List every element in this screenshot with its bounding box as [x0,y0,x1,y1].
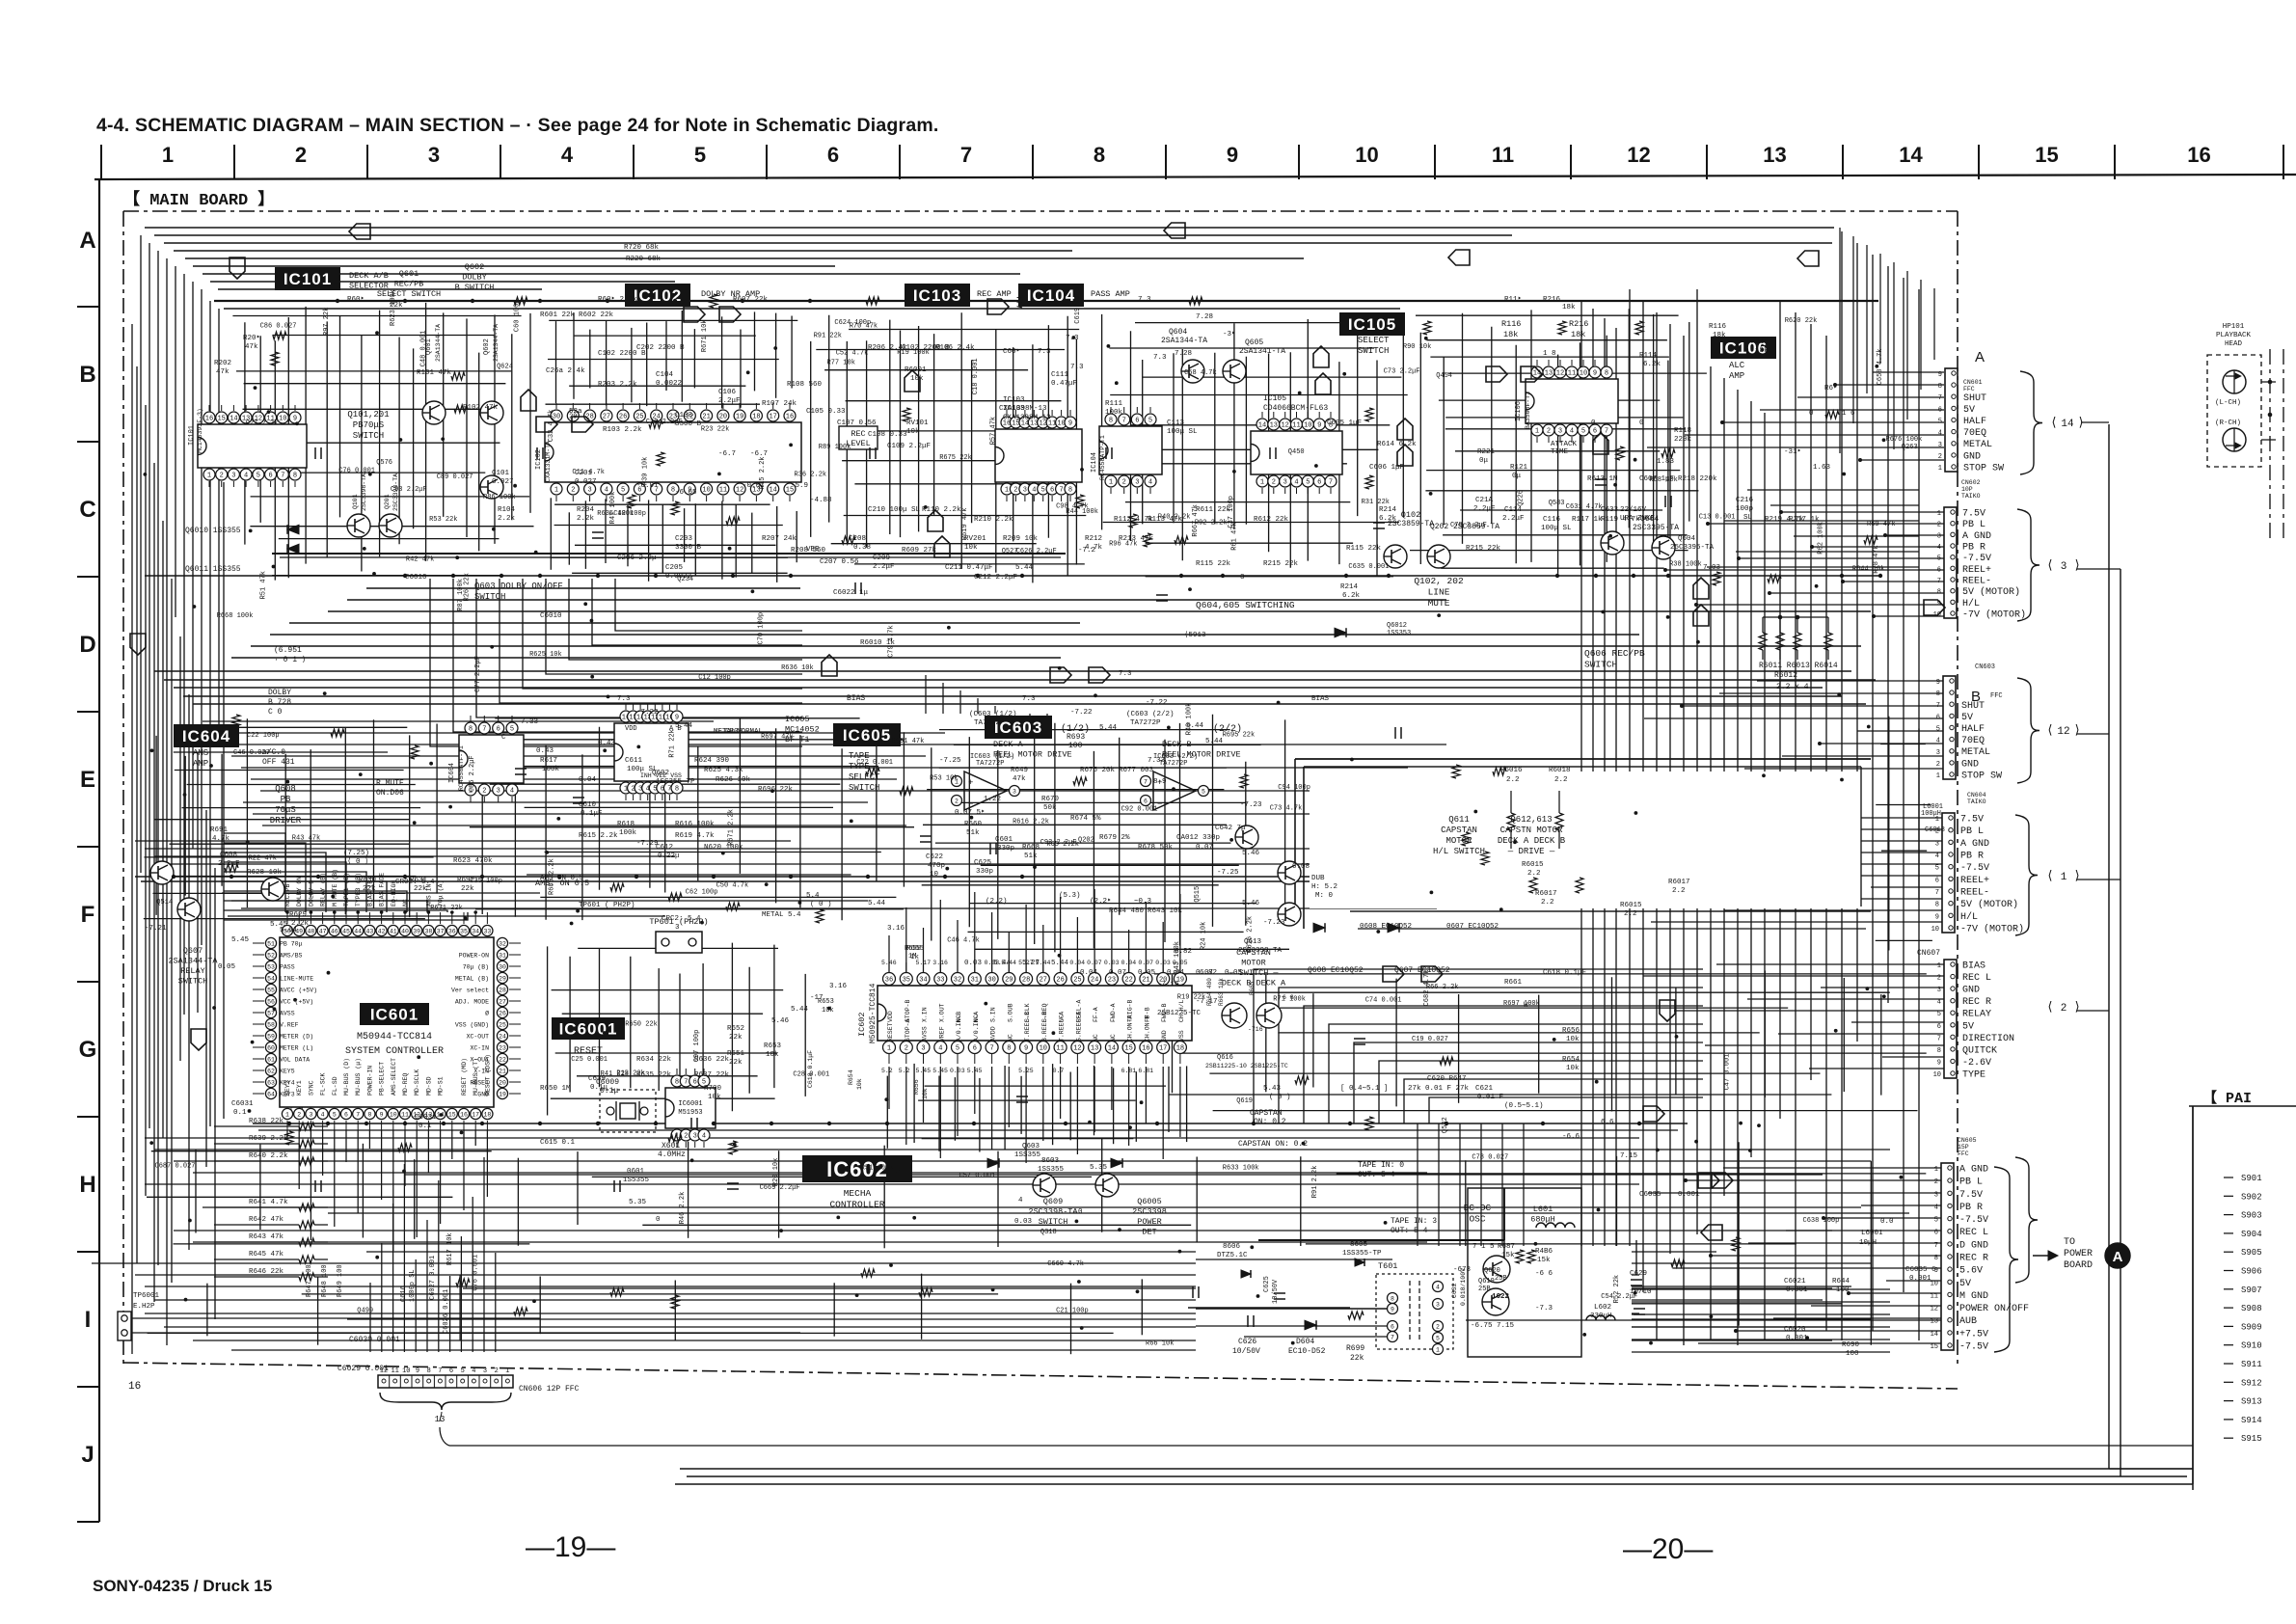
svg-text:7: 7 [438,1367,442,1375]
svg-text:6: 6 [1317,479,1321,487]
svg-text:15: 15 [217,416,225,423]
svg-text:43: 43 [365,928,373,934]
svg-text:26: 26 [619,414,627,421]
svg-text:32: 32 [954,977,961,985]
svg-text:R601 22k: R601 22k [540,311,576,319]
svg-text:6.2k: 6.2k [1342,592,1361,600]
svg-text:C612: C612 [656,844,673,852]
IC104 label [1018,284,1084,307]
svg-text:C78 0.027: C78 0.027 [1472,1153,1508,1161]
svg-text:47k: 47k [216,368,230,376]
svg-text:R617 10k: R617 10k [446,1232,454,1265]
svg-text:R203 2.2k: R203 2.2k [598,381,637,389]
svg-text:2: 2 [1937,522,1941,529]
svg-text:Q612,613: Q612,613 [1510,815,1552,825]
svg-text:R71 100k: R71 100k [1273,996,1306,1004]
svg-text:METAL 5.4: METAL 5.4 [762,911,801,919]
svg-text:-7.5V: -7.5V [1959,1215,1988,1226]
svg-text:C21A: C21A [1475,497,1494,504]
svg-text:C60‣: C60‣ [1003,348,1020,356]
connector CN601 [1945,368,1958,472]
svg-text:Q624: Q624 [497,363,513,370]
svg-text:2.2μF: 2.2μF [1502,515,1525,523]
page arrow [1486,366,1507,382]
svg-text:C77 2.2μF: C77 2.2μF [474,656,482,692]
left vertical bus wires [131,324,133,1354]
junction dots [976,574,980,578]
svg-text:Q619: Q619 [1236,1097,1253,1105]
svg-text:REEL-: REEL- [1962,577,1991,587]
svg-text:SONY-04235 / Druck 15: SONY-04235 / Druck 15 [93,1577,272,1595]
white space capstan block [1310,771,1861,908]
svg-text:A GND: A GND [1960,839,1989,850]
svg-text:C13 0.001: C13 0.001 [1699,513,1736,521]
svg-text:CXA1331M-TA: CXA1331M-TA [545,441,552,482]
svg-text:R637 22k: R637 22k [694,1071,730,1079]
svg-text:59: 59 [267,1033,275,1040]
wire mesh IC603 area [939,729,1230,731]
svg-text:4: 4 [1436,1284,1440,1290]
svg-text:(C603 (1/2): (C603 (1/2) [969,711,1017,718]
svg-text:BIAS: BIAS [1311,695,1330,703]
svg-text:R676 100k: R676 100k [1886,436,1923,444]
svg-text:Q6010 1SS355: Q6010 1SS355 [185,527,241,535]
svg-text:R616 2.2k: R616 2.2k [1247,916,1255,953]
svg-text:14: 14 [230,416,237,423]
svg-text:IC602: IC602 [857,1012,867,1037]
svg-text:57: 57 [267,1010,275,1016]
svg-text:C618 0.1μF: C618 0.1μF [807,1050,814,1088]
svg-text:R11‣: R11‣ [1504,296,1522,304]
page arrow [521,390,536,411]
svg-text:R62 100k: R62 100k [1818,522,1825,555]
svg-text:R691: R691 [210,826,229,834]
svg-text:RC4558ATF-T1: RC4558ATF-T1 [458,745,465,791]
svg-text:A GND: A GND [1959,1165,1988,1176]
svg-text:Q101,201: Q101,201 [347,410,389,420]
svg-text:8: 8 [427,1367,431,1375]
svg-text:7: 7 [1605,428,1608,436]
svg-text:Q604: Q604 [1169,328,1187,337]
svg-text:7: 7 [1937,1035,1941,1042]
svg-text:C105 0.33: C105 0.33 [806,408,846,416]
svg-text:1: 1 [887,1045,891,1053]
svg-text:R611 22k: R611 22k [1196,506,1231,514]
svg-text:5V: 5V [1959,1279,1971,1289]
svg-text:C 0: C 0 [268,708,283,717]
svg-text:DECK B: DECK B [1162,740,1192,749]
svg-text:0.03: 0.03 [1014,1218,1033,1226]
svg-text:R656: R656 [913,1079,920,1095]
svg-text:S901: S901 [2241,1174,2262,1183]
svg-text:HALF: HALF [1963,417,1986,427]
svg-text:3: 3 [1938,442,1942,449]
svg-text:KEY1: KEY1 [296,1080,303,1096]
op-amp IC603 1/2 [964,771,1007,810]
svg-text:7.3: 7.3 [1070,364,1084,371]
panel board border [2189,1105,2296,1107]
svg-text:1.83: 1.83 [1657,458,1675,466]
svg-text:100μ SL: 100μ SL [1167,428,1198,436]
svg-text:0.07: 0.07 [1087,960,1102,966]
svg-text:-7V (MOTOR): -7V (MOTOR) [1962,609,2026,621]
wire mesh right mid [1880,744,1926,745]
svg-text:CONTROLLER: CONTROLLER [829,1200,884,1210]
svg-text:10: 10 [702,487,710,495]
connector CN603 [1943,676,1956,779]
svg-text:C18 0.001: C18 0.001 [972,358,980,394]
svg-text:HEAD: HEAD [2225,340,2243,348]
svg-text:M: 0: M: 0 [1315,892,1334,900]
svg-text:MD-SD: MD-SD [425,1076,432,1096]
svg-text:I: I [85,1307,92,1333]
svg-text:5: 5 [461,1367,465,1375]
REC LEVEL box [839,426,878,449]
IC104 chip [1099,426,1162,474]
svg-text:1000p SL: 1000p SL [409,1269,417,1302]
svg-text:SL: SL [1743,514,1753,522]
svg-text:A: A [1975,349,1985,365]
svg-text:7: 7 [684,1079,688,1087]
svg-text:REC/PB: REC/PB [284,883,291,907]
svg-text:R607 22k: R607 22k [733,296,769,304]
svg-text:-5.9: -5.9 [791,482,808,490]
svg-text:-17: -17 [810,994,824,1002]
svg-text:C6010: C6010 [540,612,562,620]
IC106 chip [1526,379,1618,423]
svg-text:NORMAL: NORMAL [737,728,764,736]
svg-text:5.6V: 5.6V [1959,1266,1983,1277]
row F wires [135,840,791,842]
svg-text:R107 24k: R107 24k [762,400,797,408]
svg-text:10: 10 [1304,422,1311,430]
svg-text:GND: GND [1962,986,1980,996]
svg-text:R651: R651 [727,1050,745,1058]
svg-text:R670: R670 [1041,796,1060,803]
svg-text:X-IN: X-IN [473,1069,489,1075]
transistor Q608 [261,878,284,901]
svg-text:2SC3395-TA: 2SC3395-TA [1633,524,1679,532]
svg-text:C46 4.7k: C46 4.7k [947,937,980,945]
svg-text:-6.7: -6.7 [718,450,736,458]
svg-text:KEY3: KEY3 [280,1092,295,1098]
svg-text:4: 4 [1937,544,1941,552]
svg-text:6.2k: 6.2k [1643,361,1661,368]
svg-text:7: 7 [1122,418,1126,425]
svg-text:CN602: CN602 [1961,479,1981,486]
svg-text:STOP-A: STOP-A [905,1018,911,1042]
svg-text:R MUTE: R MUTE [376,779,404,788]
page arrow [1315,373,1331,394]
svg-text:R115 22k: R115 22k [1196,560,1231,568]
svg-text:H/L: H/L [1962,598,1980,609]
svg-text:SWITCH: SWITCH [1039,1217,1068,1227]
svg-text:CA012 330p: CA012 330p [1176,834,1220,842]
svg-text:C26a 2.4k: C26a 2.4k [546,367,585,375]
svg-text:LINE-MUTE: LINE-MUTE [280,976,313,983]
svg-text:0.1μ: 0.1μ [590,1084,608,1092]
svg-text:DUB: DUB [1311,875,1325,882]
svg-text:31: 31 [499,952,506,959]
page arrow [191,1029,206,1050]
svg-text:-7.5V: -7.5V [1962,554,1991,564]
svg-text:27: 27 [603,414,610,421]
svg-text:6: 6 [1593,428,1597,436]
svg-text:2SC3398-TA: 2SC3398-TA [1028,1207,1078,1217]
svg-text:14: 14 [1258,422,1266,430]
svg-text:2.2: 2.2 [1554,776,1568,784]
svg-text:C54 2.2μF: C54 2.2μF [1601,1293,1637,1301]
mid horizontal bus wires [145,575,1878,577]
svg-text:R220 68k: R220 68k [626,256,662,263]
svg-text:R214: R214 [1379,506,1397,514]
svg-text:4: 4 [1032,487,1036,495]
svg-text:(2.2): (2.2) [986,898,1008,906]
svg-text:C: C [79,497,95,523]
svg-text:31: 31 [971,977,979,985]
svg-text:R51 100k: R51 100k [861,1165,894,1173]
svg-text:2.2k: 2.2k [291,920,310,928]
svg-text:C211 0.47μF: C211 0.47μF [945,564,993,572]
svg-text:R697 47k: R697 47k [761,734,794,742]
svg-text:3: 3 [1935,840,1939,848]
svg-text:16: 16 [128,1381,141,1393]
svg-text:15: 15 [2035,143,2058,167]
svg-text:R699: R699 [1346,1344,1364,1353]
svg-text:2: 2 [1013,487,1017,495]
svg-text:28: 28 [1022,977,1030,985]
svg-text:FFC: FFC [1963,386,1975,392]
svg-text:Q602: Q602 [483,338,491,355]
svg-text:0.7: 0.7 [1053,1068,1065,1074]
svg-text:SHUT: SHUT [1963,393,1986,404]
column ticks [100,145,102,179]
svg-text:IC604: IC604 [182,727,230,745]
svg-text:CAPSTN MOTOR: CAPSTN MOTOR [1500,826,1563,835]
svg-text:10/50V: 10/50V [1272,1279,1280,1304]
scattered diodes [1335,628,1346,637]
svg-text:17: 17 [1159,1045,1167,1053]
svg-text:0.07: 0.07 [1109,969,1126,977]
svg-text:6.81: 6.81 [1121,1068,1137,1074]
svg-text:1: 1 [1109,479,1113,487]
svg-text:11: 11 [1568,370,1576,378]
svg-text:50k: 50k [1043,804,1057,812]
svg-text:39: 39 [413,928,420,934]
svg-text:16: 16 [786,414,794,421]
svg-text:12: 12 [1556,370,1564,378]
svg-text:FL-SD: FL-SD [332,1076,338,1096]
svg-text:M.MUTE (B): M.MUTE (B) [332,869,338,907]
svg-text:TA7272P: TA7272P [1130,719,1161,727]
svg-text:Q609: Q609 [1043,1197,1063,1206]
svg-text:0.08: 0.08 [1292,863,1310,871]
svg-text:4: 4 [510,788,514,796]
svg-text:R202: R202 [214,360,231,367]
svg-text:22/16V: 22/16V [1620,506,1647,514]
svg-text:29: 29 [1005,977,1013,985]
svg-text:42: 42 [378,928,386,934]
svg-text:C620 R647: C620 R647 [1427,1075,1467,1083]
svg-text:R624 390: R624 390 [694,757,730,765]
svg-text:E.H2P: E.H2P [133,1303,155,1311]
svg-text:1SS355: 1SS355 [1038,1166,1065,1174]
svg-text:13: 13 [1931,1318,1938,1326]
svg-text:7: 7 [1144,778,1148,785]
svg-text:15P: 15P [1958,1144,1969,1150]
svg-text:4: 4 [1937,999,1941,1007]
svg-text:C62 100p: C62 100p [686,889,718,897]
svg-text:CN604: CN604 [1967,792,1986,798]
svg-text:(5.3): (5.3) [1059,892,1081,900]
svg-text:CRC2: 5.4: CRC2: 5.4 [662,915,701,923]
svg-text:POWER-ON: POWER-ON [459,953,489,960]
svg-text:R678 50k: R678 50k [1138,844,1174,852]
svg-text:VDD: VDD [625,725,637,733]
brace 3 [2017,509,2039,621]
svg-text:R40 2.2k: R40 2.2k [1158,514,1191,522]
svg-text:13: 13 [1091,1045,1098,1053]
svg-text:1: 1 [1005,487,1009,495]
svg-text:47: 47 [319,928,327,934]
svg-text:R644 480: R644 480 [1109,907,1145,915]
svg-text:4: 4 [938,1045,942,1053]
svg-text:Q619: Q619 [1478,1278,1495,1286]
svg-text:Q608: Q608 [275,784,296,794]
svg-text:—19—: —19— [526,1531,615,1563]
svg-text:8603: 8603 [1041,1157,1060,1165]
svg-text:3: 3 [1436,1301,1440,1308]
svg-text:-7.22: -7.22 [636,709,659,717]
diode D604 [1305,1320,1316,1330]
svg-text:0μ: 0μ [1512,473,1522,480]
svg-text:C610: C610 [579,801,597,809]
svg-text:14: 14 [1108,1045,1116,1053]
svg-text:IC605: IC605 [843,726,891,744]
svg-text:-7.3: -7.3 [1535,1305,1553,1313]
svg-text:MECHA: MECHA [844,1188,872,1199]
transistor Q609 [1033,1174,1056,1197]
transistor Q101 [347,514,370,537]
transistor Q102 [1384,545,1407,568]
capacitor C625 [1274,1292,1285,1294]
svg-text:9: 9 [1935,913,1939,921]
svg-text:R43 100k: R43 100k [1174,941,1181,974]
heavy bus DC-DC [1258,1239,1504,1241]
svg-text:MU-BUS (D): MU-BUS (D) [343,1058,350,1096]
svg-text:R41 22k: R41 22k [601,1070,629,1078]
svg-text:R638 22k: R638 22k [249,1118,284,1125]
svg-text:2: 2 [482,788,486,796]
svg-text:X-OUT: X-OUT [470,1057,489,1064]
svg-text:10: 10 [1931,926,1939,934]
svg-text:C93 2.2μF: C93 2.2μF [1040,839,1077,847]
svg-text:53: 53 [267,963,275,970]
svg-text:-7.5V: -7.5V [1959,1342,1988,1353]
svg-text:1SS353: 1SS353 [1387,630,1411,637]
svg-text:6.81: 6.81 [1138,1068,1153,1074]
svg-text:R106 2.4k: R106 2.4k [935,344,975,352]
page arrow [1313,346,1329,367]
svg-text:REC L: REC L [1959,1228,1988,1238]
svg-text:ALC: ALC [1729,361,1745,370]
svg-text:0607 EC10Q52: 0607 EC10Q52 [1446,923,1499,931]
svg-text:0.43: 0.43 [598,740,616,747]
svg-text:5.64: 5.64 [280,927,298,934]
svg-text:NC: NC [1007,1034,1013,1042]
svg-text:HALF: HALF [1961,724,1985,735]
svg-text:R214: R214 [1340,583,1359,591]
svg-text:R661: R661 [1504,979,1523,987]
svg-text:4: 4 [472,1367,475,1375]
svg-text:IC605: IC605 [785,715,810,724]
top ruler line [95,175,2296,179]
svg-text:24: 24 [499,1033,506,1040]
svg-text:C616: C616 [400,1286,408,1302]
svg-text:13: 13 [1763,143,1786,167]
svg-text:R111: R111 [1105,400,1123,408]
svg-text:S903: S903 [2241,1211,2262,1221]
svg-text:R71 22k: R71 22k [669,729,677,757]
svg-text:R114: R114 [1639,352,1658,360]
svg-text:R620 22k: R620 22k [1785,317,1818,325]
svg-text:15: 15 [1931,1343,1938,1351]
IC602 pin fanout [888,1067,890,1109]
svg-text:1: 1 [1937,510,1941,518]
svg-text:−: − [968,799,973,809]
transistor Q607 [177,898,201,921]
staircase wires row D [430,579,802,746]
svg-text:3: 3 [693,1133,697,1141]
svg-text:GND: GND [1161,1030,1168,1042]
svg-text:18k: 18k [1562,304,1576,311]
svg-text:4.7k: 4.7k [212,835,230,843]
wire mesh row I [302,1293,998,1295]
svg-text:J: J [81,1442,94,1468]
svg-text:R650 22k: R650 22k [625,1021,658,1029]
svg-text:R640 2.2k: R640 2.2k [249,1152,288,1160]
svg-text:Q102: Q102 [1401,510,1420,520]
svg-text:5.2: 5.2 [881,1068,893,1074]
svg-text:70μ (A): 70μ (A) [438,880,445,907]
svg-text:R650 1M: R650 1M [540,1085,571,1093]
svg-text:R89 100k: R89 100k [819,444,851,451]
svg-text:R104: R104 [498,506,516,514]
svg-text:RESET: RESET [887,1022,894,1042]
svg-text:62: 62 [267,1068,275,1074]
svg-text:R643 47k: R643 47k [249,1233,284,1241]
svg-text:12: 12 [1627,143,1650,167]
svg-text:C73 2.2μF: C73 2.2μF [1384,368,1420,376]
svg-text:0: 0 [1078,1208,1083,1216]
svg-text:METER (D): METER (D) [280,1034,313,1041]
svg-text:2.2k: 2.2k [577,515,595,523]
svg-text:S912: S912 [2241,1378,2262,1388]
svg-text:9: 9 [1936,679,1940,687]
svg-text:KEY5: KEY5 [280,1069,295,1075]
svg-text:5: 5 [1306,479,1310,487]
svg-text:RESET: RESET [470,1080,489,1087]
transistor Q617 [1256,1003,1282,1028]
svg-text:Q605: Q605 [1245,338,1263,347]
svg-text:100: 100 [1068,742,1083,750]
svg-text:5: 5 [1202,788,1205,795]
IC601 microcontroller body [280,937,494,1107]
svg-text:6.2k: 6.2k [1379,515,1397,523]
transistor Q612 [1278,861,1301,884]
svg-text:PB R: PB R [1959,1203,1983,1213]
svg-text:(6.951: (6.951 [274,646,302,655]
